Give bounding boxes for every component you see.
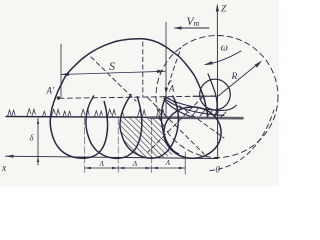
tick line 2	[117, 118, 119, 174]
vertical line at A	[165, 22, 167, 117]
Z-axis	[216, 6, 218, 159]
tick line 1	[84, 118, 86, 174]
loop 3	[120, 95, 178, 159]
omega arc arrow	[206, 51, 241, 65]
dashed trajectory above A	[166, 48, 181, 93]
dashed rotor circle	[156, 36, 278, 158]
stray prime near A	[168, 81, 171, 84]
dashed blade radius from A	[167, 97, 224, 138]
loop 1	[50, 98, 107, 159]
rotor hub circle	[200, 79, 231, 110]
chip curve 1	[164, 97, 236, 111]
x-axis	[6, 156, 219, 158]
dashed diagonal down-left	[148, 97, 203, 153]
loop 4 descending flank	[161, 97, 178, 154]
depth dimension	[37, 118, 39, 165]
dashed bottom-right arc	[210, 110, 274, 171]
dashed radius mid position	[91, 57, 136, 101]
S dimension	[61, 71, 165, 74]
dashed vertical at apex	[142, 42, 144, 97]
velocity arrow Vm	[175, 27, 209, 29]
vertical line at A'	[60, 44, 62, 98]
hub horizontal line	[193, 95, 216, 97]
tick line 3	[151, 118, 153, 174]
tick line 4	[184, 152, 186, 174]
ground line	[6, 116, 152, 119]
loop 2	[86, 96, 142, 158]
ground line thick right segment	[150, 116, 243, 119]
center line A' to C	[59, 96, 216, 98]
feed dimension line	[85, 167, 186, 169]
chip hatching	[193, 109, 226, 118]
chip curve 2	[164, 99, 224, 116]
steep curve near hub	[208, 74, 217, 117]
loop 4 rolling circle	[164, 107, 221, 158]
grass tufts	[8, 109, 165, 117]
chip curve 3	[165, 101, 193, 117]
radius R arrow	[217, 63, 260, 98]
dashed diagonal down-right	[148, 98, 204, 154]
hatched slice	[120, 117, 176, 158]
trochoid dome	[56, 39, 208, 117]
